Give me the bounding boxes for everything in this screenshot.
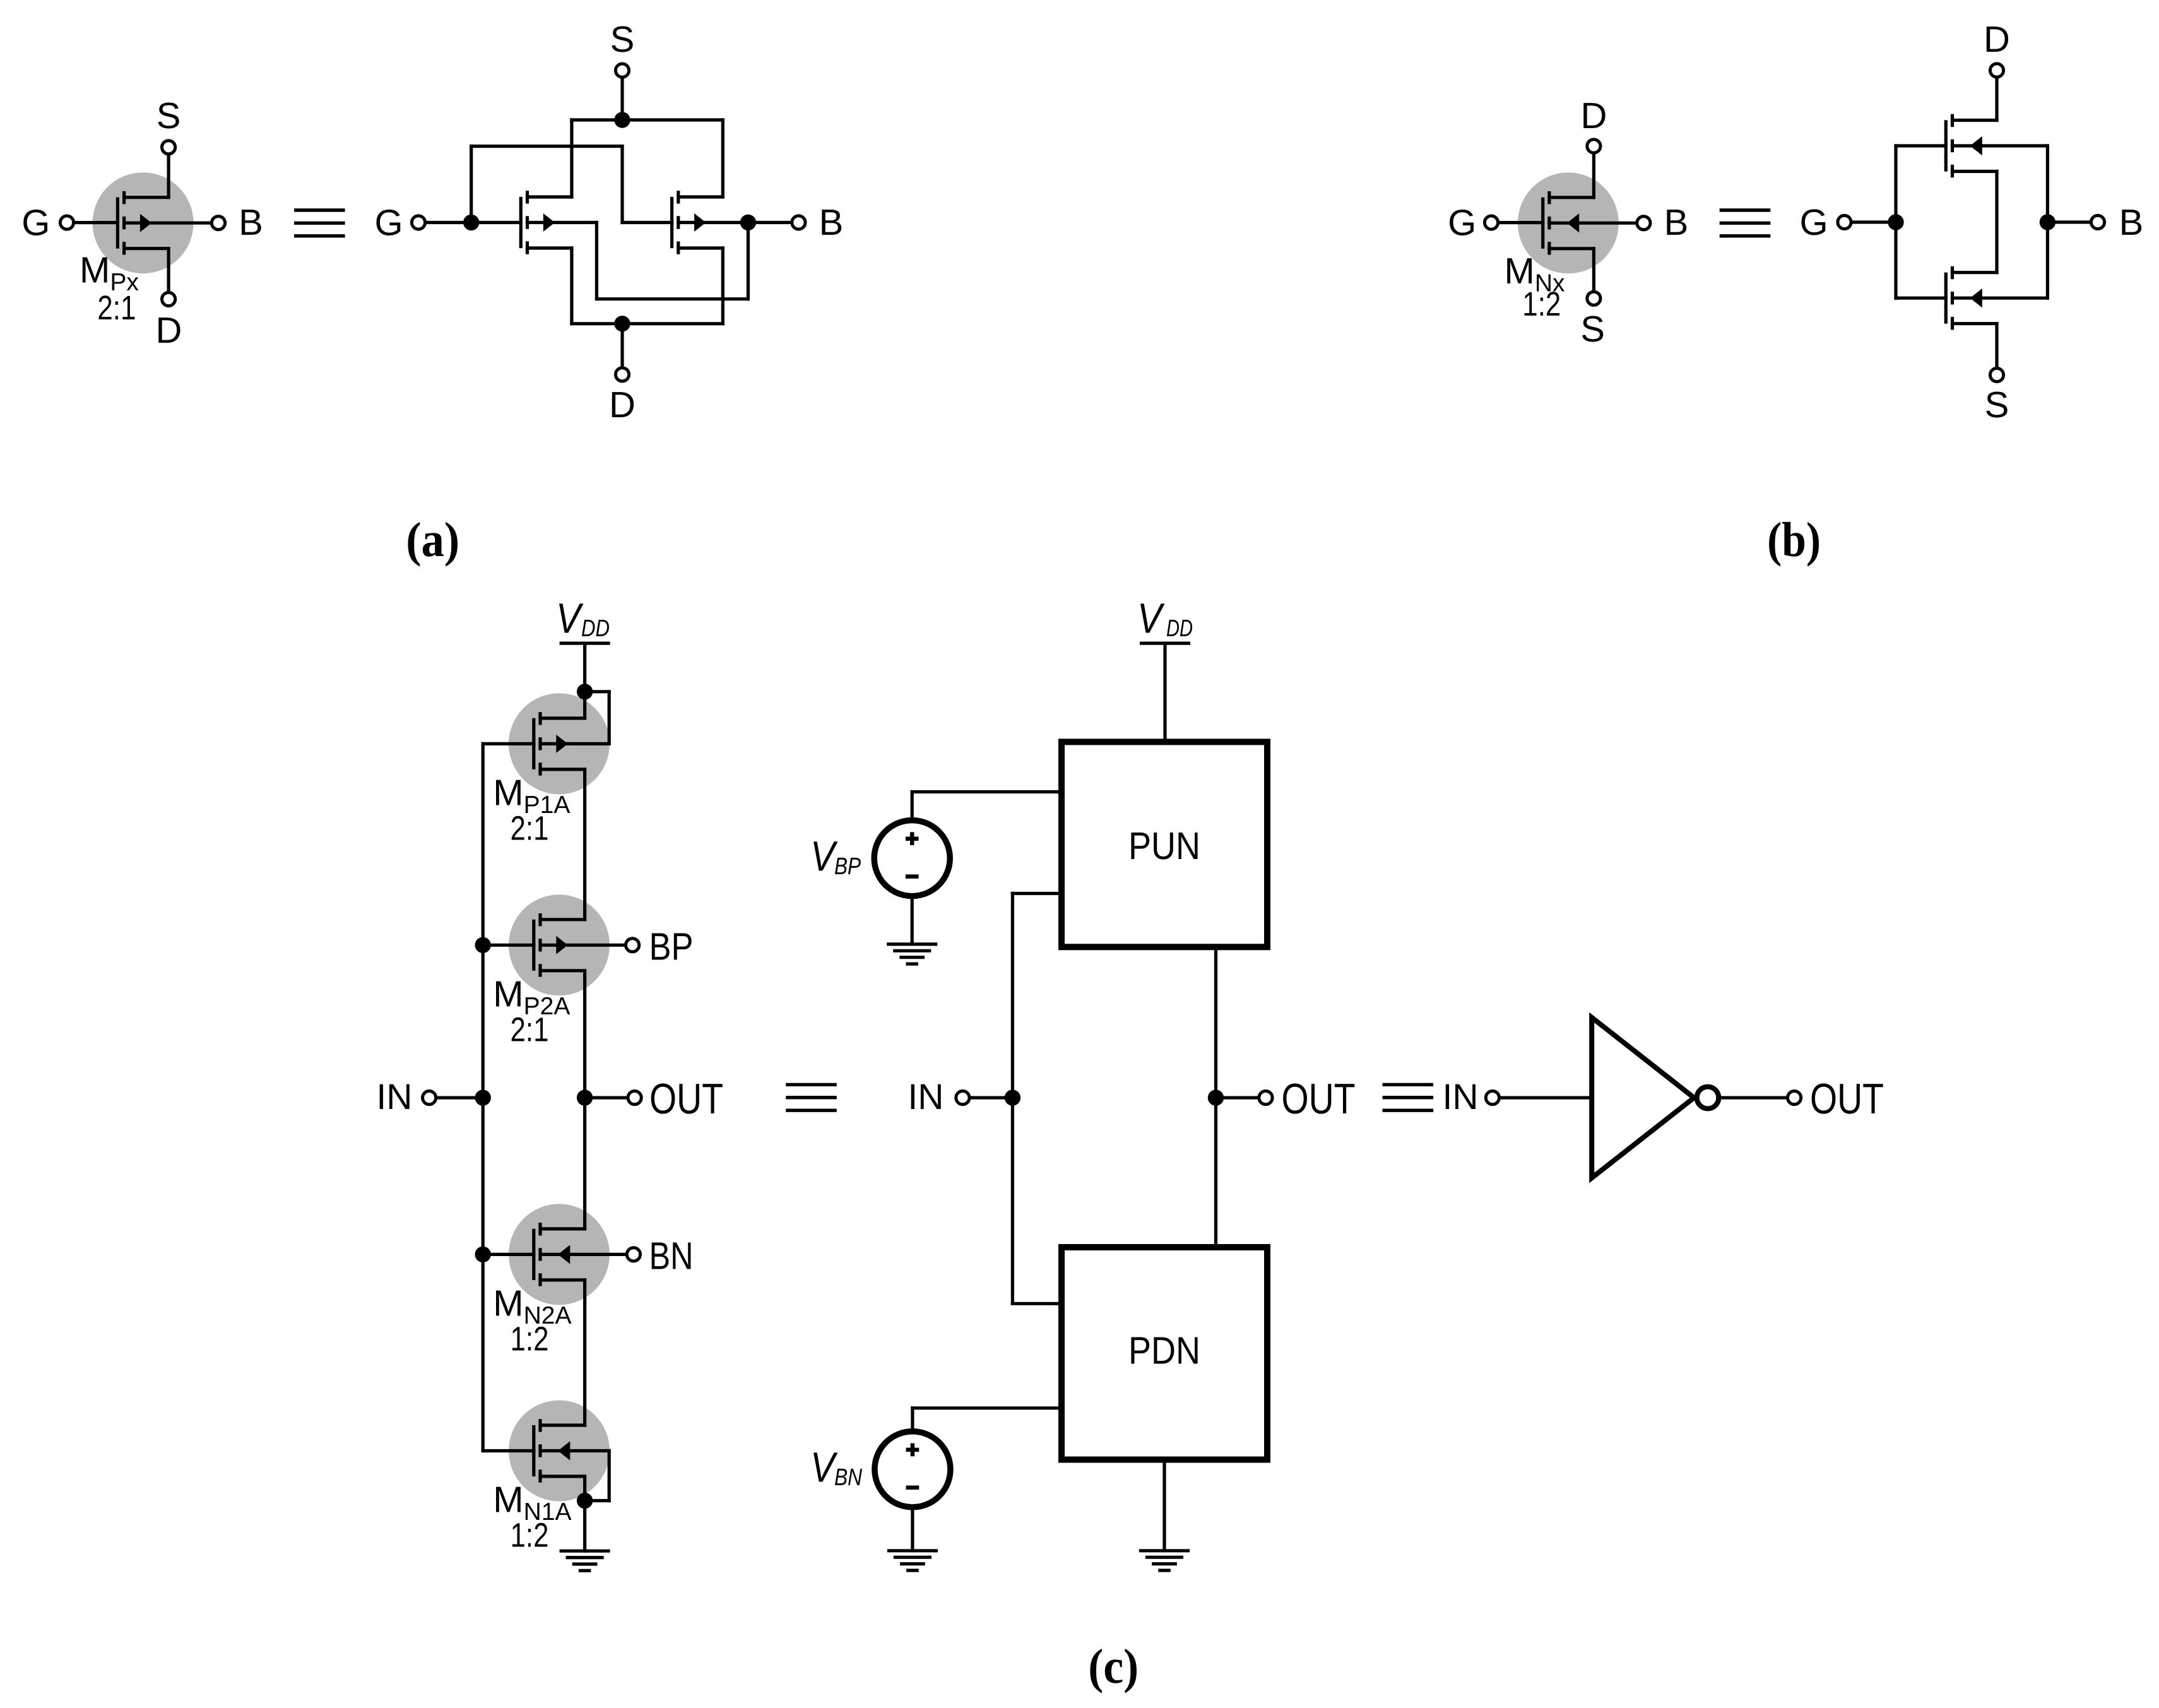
wire T1 bulk down <box>595 223 598 299</box>
wire IN to inverter <box>1501 1096 1592 1099</box>
wire IN bus vertical (blocks) <box>1011 894 1014 1304</box>
wire G to node <box>427 221 471 224</box>
node B junction dot <box>740 215 756 230</box>
svg-text:1:2: 1:2 <box>511 1320 549 1358</box>
source V_BP <box>874 821 950 896</box>
wire V_BN top up <box>911 1408 914 1432</box>
svg-text:V: V <box>556 595 584 643</box>
wire IN bus to M_N2A gate <box>483 1253 534 1256</box>
terminal BN circle <box>627 1248 640 1261</box>
svg-text:B: B <box>1664 202 1689 243</box>
wire IN terminal to bus <box>437 1096 483 1099</box>
transistor M_P2A (PMOS) <box>534 915 585 975</box>
wire D bottom bus <box>572 322 723 325</box>
wire V_BP top up <box>911 792 914 821</box>
terminal G circle (b-right) <box>1838 215 1851 228</box>
wire M_P1A drain to M_P2A source <box>583 769 586 920</box>
wire G bus to top gate <box>1896 144 1946 147</box>
svg-text:2:1: 2:1 <box>511 809 549 847</box>
node OUT junction dot (stack) <box>577 1089 593 1105</box>
svg-text:IN: IN <box>376 1077 412 1117</box>
wire S bus right drop <box>721 120 725 197</box>
svg-text:S: S <box>1580 309 1605 350</box>
transistor M_P1A (PMOS) <box>534 714 585 774</box>
wire PUN to OUT node <box>1214 947 1217 1098</box>
svg-text:OUT: OUT <box>1282 1075 1356 1123</box>
wire V_BN bottom to ground <box>911 1507 914 1551</box>
transistor top (NMOS, b-right) <box>1946 116 1997 175</box>
svg-text:IN: IN <box>1443 1077 1479 1117</box>
terminal S circle (b-right) <box>1990 368 2003 381</box>
wire V_DD to M_P1A source <box>583 692 586 718</box>
svg-text:V: V <box>1137 595 1165 643</box>
wire B bus vertical <box>2046 146 2049 298</box>
svg-text:G: G <box>21 203 50 244</box>
transistor M_Nx (NMOS, 4-terminal) <box>1543 193 1594 253</box>
wire G to gate (b) <box>1499 221 1543 224</box>
svg-text:G: G <box>1448 203 1476 244</box>
svg-text:G: G <box>1799 202 1828 243</box>
wire G to gate <box>75 221 117 224</box>
equivalence symbol (c) first <box>788 1084 835 1110</box>
wire V_BP to PUN <box>912 790 1062 793</box>
equivalence symbol (b) <box>1721 210 1768 236</box>
svg-text:PUN: PUN <box>1128 824 1200 867</box>
svg-text:S: S <box>157 95 181 136</box>
node M_N1A source junction dot <box>577 1493 593 1509</box>
wire V_DD to PUN <box>1163 643 1166 742</box>
node S junction dot <box>614 112 630 128</box>
wire M_P2A bulk to BP <box>540 944 624 947</box>
svg-text:(c): (c) <box>1088 1639 1139 1693</box>
node IN bus dot at M_P2A gate <box>475 937 491 953</box>
wire drain stub to D terminal <box>1592 155 1595 198</box>
equivalence symbol (c) second <box>1384 1084 1431 1110</box>
wire G route down <box>620 146 624 223</box>
terminal G circle (b) <box>1484 216 1498 229</box>
wire bulk to B terminal <box>124 222 210 225</box>
wire G route up <box>470 146 473 223</box>
wire interconnect source-drain <box>1995 172 1998 273</box>
wire OUT node to terminal (stack) <box>585 1096 627 1099</box>
terminal S circle (b) <box>1587 292 1600 305</box>
source V_BN <box>875 1432 950 1507</box>
wire S terminal to bus <box>620 79 624 120</box>
svg-text:G: G <box>374 203 403 244</box>
wire M_N1A bulk down <box>608 1451 611 1501</box>
node V_DD junction dot <box>577 684 593 699</box>
wire M_P2A drain down to OUT <box>583 971 586 1098</box>
ground PDN <box>1141 1551 1188 1570</box>
ground V_BN <box>889 1551 936 1570</box>
terminal S circle <box>162 141 175 154</box>
wire T1 bulk across <box>596 297 748 300</box>
terminal OUT circle (inverter) <box>1788 1091 1801 1105</box>
wire top bulk to B bus <box>1953 144 2048 147</box>
svg-text:B: B <box>819 202 844 243</box>
wire IN to PUN <box>1012 892 1062 895</box>
wire M_N2A source to M_N1A drain <box>583 1280 586 1425</box>
gray highlight circle M_P1A <box>509 693 610 794</box>
terminal S circle (a-right) <box>615 64 629 77</box>
wire T1 drain drop <box>570 248 573 324</box>
svg-text:BP: BP <box>649 925 694 968</box>
terminal OUT circle (stack) <box>628 1091 641 1105</box>
wire G node to T1 gate <box>471 221 521 224</box>
wire V_DD rail <box>561 641 608 644</box>
wire M_P1A bulk <box>540 742 609 745</box>
wire M_P1A bulk down <box>608 692 611 744</box>
svg-text:BN: BN <box>834 1464 862 1491</box>
wire M_N1A bulk to source <box>585 1499 610 1502</box>
svg-text:2:1: 2:1 <box>511 1011 549 1048</box>
terminal D circle (b-right) <box>1990 64 2003 77</box>
wire source stub to S terminal (b-right) <box>1995 324 1998 367</box>
box PUN <box>1062 742 1267 947</box>
wire S top bus <box>572 118 723 121</box>
svg-text:BP: BP <box>834 853 861 880</box>
wire source stub to S terminal <box>167 156 170 198</box>
terminal D circle <box>162 292 175 305</box>
gray highlight circle M_N1A <box>509 1401 610 1502</box>
svg-text:IN: IN <box>908 1077 943 1117</box>
svg-text:BN: BN <box>649 1235 694 1278</box>
wire M_N1A bulk right <box>540 1449 609 1452</box>
wire M_N2A bulk to BN <box>540 1253 625 1256</box>
wire bulk to B terminal (b) <box>1549 222 1635 225</box>
ground V_BP <box>889 944 936 964</box>
node G junction dot <box>463 215 479 230</box>
node D junction dot <box>614 316 630 331</box>
wire V_DD down <box>583 643 586 692</box>
svg-text:D: D <box>609 384 636 425</box>
wire B node to terminal (b-right) <box>2047 220 2089 223</box>
node B junction dot (b-right) <box>2040 214 2055 230</box>
wire D node to terminal <box>620 324 624 367</box>
wire G bus vertical <box>1894 146 1897 298</box>
inverter bubble <box>1697 1087 1719 1109</box>
inverter triangle <box>1592 1017 1694 1178</box>
wire S bus left drop <box>570 120 573 197</box>
svg-text:OUT: OUT <box>649 1075 723 1123</box>
terminal B circle (b) <box>1637 216 1650 230</box>
svg-text:D: D <box>156 310 182 351</box>
wire D to drain stub <box>1995 79 1998 121</box>
svg-text:PDN: PDN <box>1128 1329 1200 1372</box>
svg-text:D: D <box>1984 19 2010 60</box>
terminal D circle (a-right) <box>615 368 629 381</box>
wire G route across <box>471 145 622 148</box>
wire IN bus to M_N1A gate <box>483 1449 534 1452</box>
svg-text:D: D <box>1580 95 1607 136</box>
svg-text:B: B <box>2119 202 2144 243</box>
terminal IN circle (stack) <box>423 1091 436 1105</box>
equivalence symbol (a) <box>296 210 343 236</box>
wire M_N1A source to ground <box>583 1476 586 1551</box>
wire OUT node to PDN <box>1214 1098 1217 1247</box>
wire OUT down to M_N2A drain <box>583 1098 586 1229</box>
wire T2 bulk to B node <box>678 221 748 224</box>
terminal OUT circle (blocks) <box>1259 1091 1272 1105</box>
svg-text:1:2: 1:2 <box>1522 285 1561 323</box>
ground (stack) <box>561 1551 608 1570</box>
transistor bottom (NMOS, b-right) <box>1946 268 1997 328</box>
wire source stub to S terminal <box>1592 249 1595 290</box>
wire V_BP bottom to ground <box>911 896 914 944</box>
terminal G circle (a-right) <box>411 216 425 229</box>
terminal IN circle (inverter) <box>1486 1091 1499 1105</box>
wire inverter to OUT <box>1721 1096 1786 1099</box>
wire T1 bulk up to B node <box>747 223 750 299</box>
svg-text:B: B <box>239 202 263 243</box>
wire IN to PDN <box>1012 1302 1062 1305</box>
wire IN bus to M_P1A gate <box>483 742 534 745</box>
node IN junction dot (blocks) <box>1005 1089 1020 1105</box>
terminal D circle (b) <box>1587 139 1600 153</box>
wire IN bus to M_P2A gate <box>483 944 534 947</box>
gray highlight circle M_N2A <box>509 1204 610 1305</box>
transistor T2 (PMOS) <box>672 193 723 252</box>
wire T1 bulk right <box>528 221 597 224</box>
wire bottom bulk to B bus <box>1953 297 2048 300</box>
wire IN bus vertical <box>482 744 485 1450</box>
gray highlight circle around M_Nx <box>1518 172 1619 273</box>
transistor M_N2A (NMOS) <box>534 1225 585 1284</box>
wire PDN to ground <box>1162 1460 1166 1551</box>
wire V_DD rail (blocks) <box>1142 641 1189 644</box>
svg-text:1:2: 1:2 <box>511 1517 549 1555</box>
wire G bus to bottom gate <box>1896 297 1946 300</box>
wire G to bus (b-right) <box>1853 220 1896 223</box>
node IN bus dot at IN level <box>475 1089 491 1105</box>
wire T2 drain drop <box>721 248 725 324</box>
wire OUT node to terminal (blocks) <box>1216 1096 1258 1099</box>
wire G route to T2 gate <box>622 221 672 224</box>
transistor T1 (PMOS) <box>521 193 572 252</box>
terminal B circle <box>211 216 225 230</box>
svg-text:(b): (b) <box>1767 512 1821 567</box>
svg-text:OUT: OUT <box>1810 1075 1884 1123</box>
svg-text:DD: DD <box>1166 615 1193 642</box>
wire IN to node (blocks) <box>971 1096 1013 1099</box>
transistor M_N1A (NMOS) <box>534 1421 585 1481</box>
svg-text:S: S <box>610 19 635 60</box>
terminal B circle (a-right) <box>792 216 805 229</box>
wire M_P1A bulk right <box>585 690 610 693</box>
wire B node to terminal <box>748 221 790 224</box>
terminal BP circle <box>626 939 639 952</box>
svg-text:(a): (a) <box>406 512 459 567</box>
terminal IN circle (blocks) <box>956 1091 969 1105</box>
svg-text:S: S <box>1985 384 2009 425</box>
gray highlight circle around M_Px <box>93 172 194 273</box>
transistor M_Px (PMOS, 4-terminal) <box>117 193 169 253</box>
node G junction dot (b-right) <box>1888 214 1903 230</box>
terminal B circle (b-right) <box>2091 215 2104 228</box>
wire V_BN to PDN <box>913 1406 1062 1409</box>
node IN bus dot at M_N2A gate <box>475 1247 491 1262</box>
svg-text:DD: DD <box>581 615 610 642</box>
gray highlight circle M_P2A <box>509 894 610 995</box>
wire drain stub to D terminal <box>167 249 170 291</box>
node OUT junction dot (blocks) <box>1208 1089 1224 1105</box>
terminal G circle <box>60 216 73 229</box>
svg-text:2:1: 2:1 <box>97 289 136 327</box>
box PDN <box>1062 1247 1267 1460</box>
